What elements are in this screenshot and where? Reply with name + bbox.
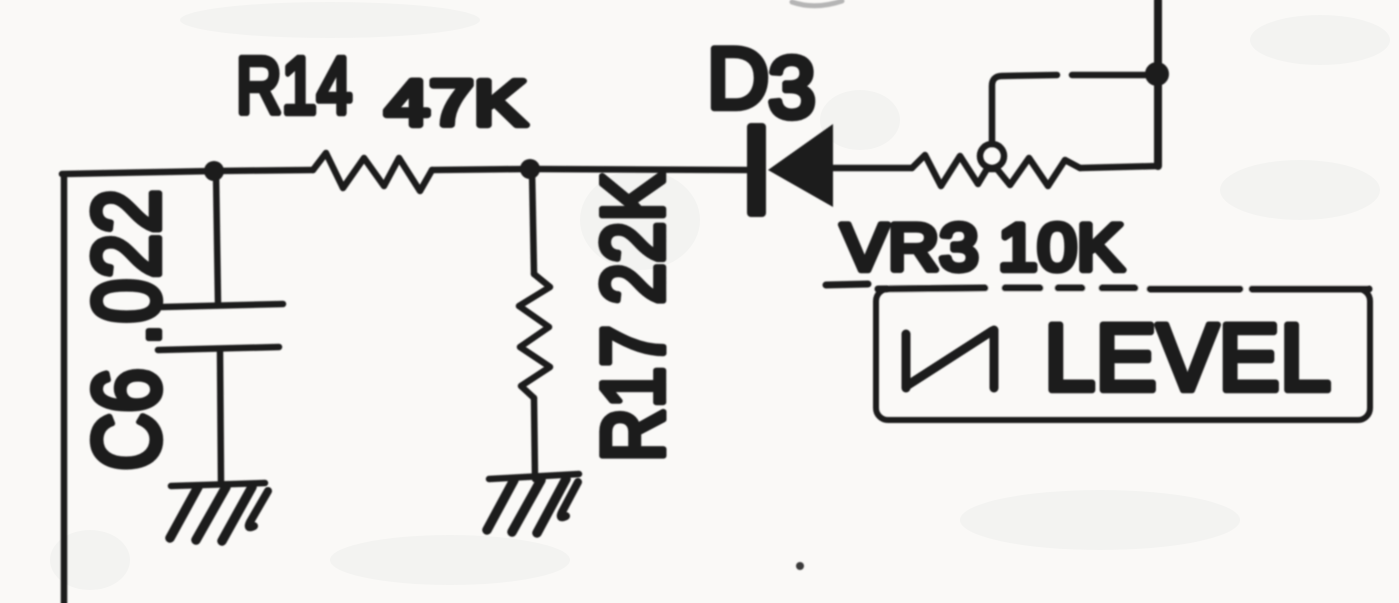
svg-text:R17 22K: R17 22K	[583, 172, 682, 462]
wire left vertical	[61, 175, 68, 603]
svg-text:C6 .022: C6 .022	[74, 189, 180, 471]
resistor R14	[313, 153, 432, 191]
capacitor C6	[158, 171, 283, 484]
svg-text:VR3 10K: VR3 10K	[841, 210, 1124, 284]
wire top horizontal left	[62, 170, 313, 174]
svg-text:3: 3	[768, 40, 816, 136]
label LEVEL	[1044, 305, 1331, 411]
ground for R17	[487, 474, 579, 533]
label D3	[707, 31, 816, 136]
stray ink dot	[796, 562, 804, 570]
potentiometer VR3	[912, 144, 1080, 186]
label R14	[236, 41, 352, 130]
faint top-center arc	[792, 1, 842, 6]
label R17 22K	[583, 172, 682, 462]
label C6 .022	[74, 189, 180, 471]
dash left of LEVEL box	[826, 284, 868, 285]
svg-text:47K: 47K	[385, 67, 527, 139]
wire diode to VR3	[833, 165, 912, 172]
svg-text:D: D	[707, 31, 769, 127]
label VR3 10K	[841, 210, 1124, 284]
ground for C6	[170, 483, 268, 541]
sawtooth icon	[906, 330, 994, 388]
svg-text:R14: R14	[236, 41, 352, 130]
wire VR3 wiper loop	[992, 75, 1153, 144]
wire R14 to diode	[432, 169, 747, 170]
resistor R17	[519, 169, 550, 479]
node junction at loop top	[1145, 62, 1169, 86]
diode D3	[747, 123, 833, 217]
LEVEL box	[876, 288, 1370, 420]
wire VR3 right end to vertical	[1080, 166, 1158, 168]
label 47K	[385, 67, 527, 139]
node junction at C6 tap	[204, 161, 224, 181]
svg-text:LEVEL: LEVEL	[1044, 305, 1331, 411]
node junction at R17 tap	[520, 159, 540, 179]
wire right vertical	[1154, 0, 1162, 166]
